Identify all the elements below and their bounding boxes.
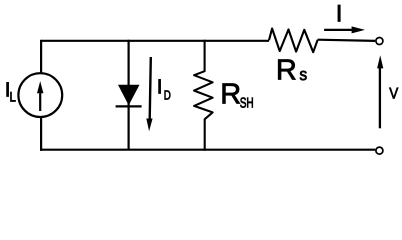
- current source IL circle: [18, 73, 62, 117]
- label RS: [276, 55, 307, 87]
- current arrow ID: [146, 57, 152, 131]
- svg-text:V: V: [389, 86, 399, 103]
- label RSH: [220, 79, 253, 112]
- svg-text:R: R: [276, 55, 297, 87]
- label ID: [157, 75, 171, 102]
- svg-text:L: L: [10, 89, 17, 104]
- diode D1 cathode bar: [116, 105, 142, 107]
- wire: top rail from Rs to output terminal: [318, 40, 375, 41]
- svg-text:s: s: [299, 65, 307, 84]
- svg-text:D: D: [164, 87, 171, 102]
- wire: top rail (top-left corner to Rs left lead): [41, 40, 269, 42]
- svg-text:I: I: [157, 75, 163, 98]
- current source IL arrow: [37, 81, 43, 111]
- wire: bottom rail: [40, 149, 375, 151]
- svg-text:SH: SH: [240, 95, 254, 111]
- svg-text:I: I: [336, 1, 343, 28]
- wire: left branch bottom (current source to bottom rail): [40, 117, 42, 151]
- voltage arrow V: [377, 55, 383, 128]
- resistor RSH zigzag (shunt branch): [194, 40, 213, 151]
- terminal: negative output (open circle, bottom right): [376, 147, 383, 154]
- resistor RS zigzag (series, on top rail): [269, 29, 318, 53]
- wire: diode branch vertical: [128, 40, 130, 150]
- diode D1 triangle: [118, 85, 140, 106]
- output current arrow I: [324, 26, 365, 33]
- label IL: [5, 79, 16, 105]
- wire: left branch top (top rail down to current source): [40, 40, 42, 74]
- terminal: positive output (open circle, top right): [376, 38, 383, 45]
- svg-text:R: R: [220, 79, 241, 111]
